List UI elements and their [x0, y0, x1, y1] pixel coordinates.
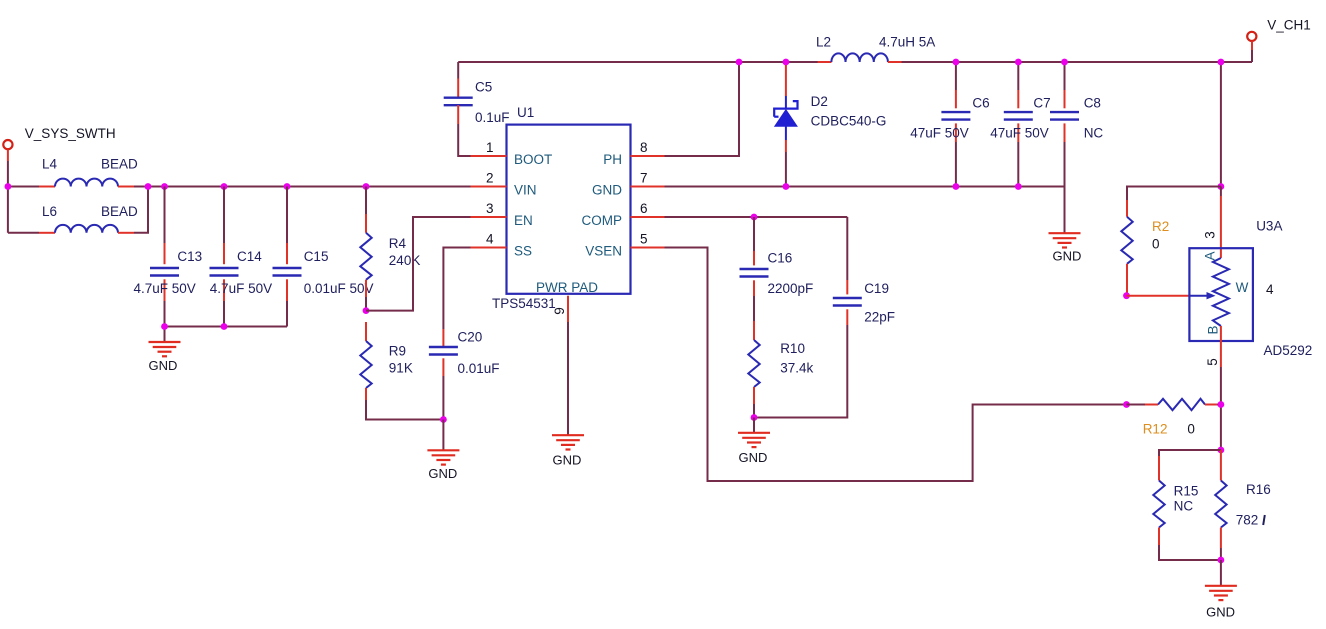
junction COMP/C16	[751, 214, 758, 221]
svg-text:47uF 50V: 47uF 50V	[910, 125, 969, 140]
svg-text:TPS54531: TPS54531	[492, 296, 556, 311]
wire PH riser	[665, 62, 740, 156]
pin 4 SS stub	[471, 247, 507, 249]
junction C13/rail	[161, 183, 168, 190]
svg-text:R16: R16	[1246, 482, 1271, 497]
junction R2 top/pin3 wire	[1218, 183, 1225, 190]
wire C20 gnd stem	[442, 420, 444, 451]
svg-text:0.01uF: 0.01uF	[458, 361, 500, 376]
svg-text:1: 1	[486, 140, 494, 155]
junction R4/R9/EN	[363, 307, 370, 314]
svg-text:0: 0	[1152, 237, 1160, 252]
junction C6/top rail	[953, 59, 960, 66]
wire wiper W	[1127, 295, 1190, 297]
inductor L6	[39, 225, 134, 233]
junction C15/rail	[284, 183, 291, 190]
svg-text:L6: L6	[42, 204, 57, 219]
capacitor C13	[150, 187, 179, 327]
capacitor C7	[1004, 62, 1033, 187]
svg-text:0.01uF 50V: 0.01uF 50V	[304, 281, 374, 296]
svg-text:R4: R4	[389, 236, 407, 251]
capacitor C19	[754, 217, 862, 418]
junction C7/top rail	[1015, 59, 1022, 66]
svg-text:782: 782	[1236, 513, 1259, 528]
ground under R16	[1205, 586, 1237, 620]
svg-text:B: B	[1206, 325, 1221, 334]
pin 5 VSEN stub	[631, 247, 665, 249]
resistor R12	[1127, 399, 1221, 410]
svg-text:PWR PAD: PWR PAD	[536, 280, 598, 295]
svg-text:SS: SS	[514, 244, 532, 259]
capacitor C15	[273, 187, 302, 327]
pin 2 VIN stub	[471, 186, 507, 188]
resistor R10	[748, 321, 759, 418]
svg-text:GND: GND	[149, 358, 178, 373]
junction V_CH1/top rail	[1218, 59, 1225, 66]
wire top BOOT rail	[458, 61, 1252, 63]
svg-text:5: 5	[640, 232, 648, 247]
ground under PWR PAD	[552, 435, 584, 467]
junction R12/pin5 wire	[1218, 401, 1225, 408]
wire GND rail from pin7	[665, 187, 1065, 234]
junction C16/C19/gnd	[751, 414, 758, 421]
svg-text:C8: C8	[1084, 96, 1101, 111]
wiper arrow	[1189, 292, 1215, 299]
pin 7 GND stub	[631, 186, 665, 188]
wire EN net	[366, 217, 471, 311]
op-amp U3A body AD5292	[1189, 248, 1253, 341]
svg-text:37.4k: 37.4k	[780, 361, 813, 376]
junction C13/gnd bus	[161, 323, 168, 330]
svg-text:22pF: 22pF	[864, 310, 895, 325]
svg-text:L4: L4	[42, 157, 58, 172]
svg-text:BOOT: BOOT	[514, 152, 552, 167]
svg-text:A: A	[1203, 251, 1218, 260]
capacitor C20	[429, 329, 458, 420]
junction C14/gnd bus	[221, 323, 228, 330]
junction D2/gnd rail	[783, 183, 790, 190]
svg-text:GND: GND	[592, 183, 622, 198]
wire V_CH1 drop	[1221, 50, 1252, 187]
svg-text:4.7uF 50V: 4.7uF 50V	[134, 281, 196, 296]
capacitor C14	[210, 187, 239, 327]
svg-text:4: 4	[486, 232, 494, 247]
wire SS net	[443, 248, 471, 330]
pin 3 EN stub	[471, 216, 507, 218]
svg-text:R10: R10	[780, 341, 805, 356]
svg-text:7: 7	[640, 171, 648, 186]
terminal V_CH1	[1247, 32, 1256, 50]
wire PWR PAD to gnd	[567, 322, 569, 435]
wire main VIN rail	[134, 186, 471, 188]
resistor R15	[1153, 456, 1221, 560]
svg-text:AD5292: AD5292	[1264, 343, 1313, 358]
svg-text:CDBC540-G: CDBC540-G	[811, 114, 887, 129]
svg-text:GND: GND	[739, 450, 768, 465]
svg-text:4: 4	[1266, 282, 1274, 297]
svg-text:V_CH1: V_CH1	[1267, 18, 1311, 33]
svg-text:R15: R15	[1174, 484, 1199, 499]
svg-text:4.7uF 50V: 4.7uF 50V	[210, 281, 272, 296]
svg-text:COMP: COMP	[582, 213, 623, 228]
capacitor C16	[740, 217, 769, 321]
wire pin3 stub	[1220, 187, 1222, 197]
svg-text:U1: U1	[517, 105, 534, 120]
capacitor C5	[444, 62, 473, 156]
svg-text:C14: C14	[237, 249, 262, 264]
resistor R9	[360, 322, 443, 420]
svg-text:GND: GND	[1206, 605, 1235, 620]
svg-text:C7: C7	[1033, 96, 1050, 111]
junction C8/top rail	[1061, 59, 1068, 66]
svg-text:NC: NC	[1174, 499, 1194, 514]
pin 5 stub below U3A	[1220, 326, 1222, 367]
junction R2 bottom/wiper	[1123, 292, 1130, 299]
value R16 partial glyph	[1263, 515, 1265, 525]
capacitor C6	[941, 62, 970, 187]
wire terminal stem to L4/L6 left	[8, 161, 39, 233]
svg-text:5: 5	[1205, 358, 1220, 366]
junction R15/R16 bottom	[1218, 557, 1225, 564]
pin 6 COMP stub	[631, 216, 665, 218]
svg-text:4.7uH 5A: 4.7uH 5A	[879, 35, 935, 50]
svg-text:R2: R2	[1152, 219, 1169, 234]
junction R4/rail	[363, 183, 370, 190]
ground under C20	[427, 450, 459, 481]
inductor L4	[39, 179, 134, 187]
svg-text:6: 6	[640, 201, 648, 216]
inductor L2	[818, 53, 902, 62]
wire VSEN net	[665, 248, 1127, 482]
potentiometer element inside U3A	[1213, 258, 1229, 326]
svg-text:C15: C15	[304, 249, 329, 264]
ground under C8	[1049, 233, 1082, 263]
svg-text:R9: R9	[389, 344, 406, 359]
svg-text:VIN: VIN	[514, 183, 537, 198]
svg-text:V_SYS_SWTH: V_SYS_SWTH	[25, 126, 116, 141]
terminal V_SYS_SWTH	[3, 140, 12, 161]
junction VSEN/R12	[1123, 401, 1130, 408]
svg-text:3: 3	[1203, 231, 1218, 239]
svg-text:NC: NC	[1084, 125, 1104, 140]
wire COMP net	[665, 216, 848, 218]
junction C7/gnd rail	[1015, 183, 1022, 190]
junction L6/rail	[145, 183, 152, 190]
svg-text:C13: C13	[177, 249, 202, 264]
ground under C16	[738, 433, 770, 465]
junction terminal/L4/L6	[5, 183, 12, 190]
svg-text:BEAD: BEAD	[101, 157, 138, 172]
junction PH riser/top rail	[736, 59, 743, 66]
wire R15 top branch	[1159, 450, 1221, 456]
svg-text:0.1uF: 0.1uF	[475, 110, 510, 125]
svg-text:2200pF: 2200pF	[768, 281, 814, 296]
resistor R4	[360, 187, 371, 311]
svg-text:BEAD: BEAD	[101, 204, 138, 219]
wire gnd bus under C13-C15	[165, 327, 288, 343]
svg-text:C16: C16	[768, 251, 793, 266]
svg-text:8: 8	[640, 140, 648, 155]
svg-text:91K: 91K	[389, 361, 413, 376]
svg-text:GND: GND	[1053, 249, 1082, 264]
pin 9 PWR PAD stub	[567, 296, 569, 322]
wire C16 gnd stem	[753, 418, 755, 433]
junction C14/rail	[221, 183, 228, 190]
svg-text:GND: GND	[428, 466, 457, 481]
svg-text:9: 9	[552, 307, 567, 315]
wire L6 return to main rail	[134, 187, 148, 233]
pin 8 PH stub	[631, 155, 665, 157]
capacitor C8	[1050, 62, 1079, 187]
ground under C13	[149, 342, 181, 373]
svg-text:C19: C19	[864, 281, 889, 296]
svg-text:R12: R12	[1143, 422, 1168, 437]
svg-text:D2: D2	[811, 94, 828, 109]
resistor R16	[1215, 450, 1226, 560]
junction D2/top rail	[783, 59, 790, 66]
svg-text:47uF 50V: 47uF 50V	[990, 125, 1049, 140]
svg-text:240K: 240K	[389, 253, 421, 268]
wire pin5 to R12 node	[1220, 367, 1222, 450]
svg-text:C20: C20	[458, 330, 483, 345]
pin 1 BOOT stub	[471, 155, 507, 157]
svg-text:VSEN: VSEN	[585, 244, 622, 259]
svg-text:C5: C5	[475, 80, 492, 95]
svg-text:W: W	[1236, 280, 1249, 295]
svg-text:U3A: U3A	[1256, 219, 1282, 234]
junction C6/gnd rail	[953, 183, 960, 190]
svg-text:2: 2	[486, 171, 494, 186]
svg-text:C6: C6	[972, 96, 989, 111]
svg-text:PH: PH	[603, 152, 622, 167]
svg-text:0: 0	[1187, 422, 1195, 437]
svg-text:3: 3	[486, 201, 494, 216]
junction R15/R16 top	[1218, 447, 1225, 454]
resistor R2	[1121, 200, 1132, 296]
op-amp U1 body TPS54531	[507, 125, 631, 294]
diode D2 CDBC540-G	[774, 65, 797, 187]
svg-text:L2: L2	[816, 35, 831, 50]
svg-text:EN: EN	[514, 213, 533, 228]
wire R2 top branch	[1127, 187, 1221, 201]
junction R9/C20/gnd	[440, 416, 447, 423]
svg-text:GND: GND	[553, 453, 582, 468]
wire R16 gnd stem	[1220, 560, 1222, 586]
